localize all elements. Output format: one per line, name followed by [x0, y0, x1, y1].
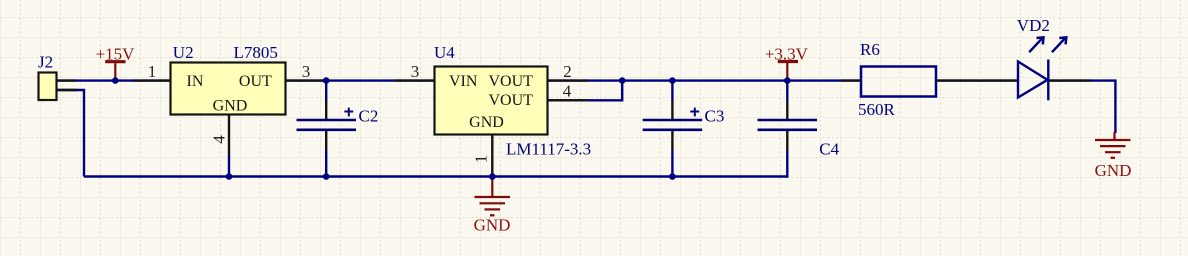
wire: J2 pin2 down to ground rail: [57, 90, 84, 177]
wire: U4 pin4 riser: [548, 81, 622, 101]
ground GND (under U4): [474, 179, 511, 235]
junction U4 pin1 / ground rail: [489, 173, 496, 180]
svg-text:1: 1: [471, 155, 490, 164]
wire: U2 pin3 to U4: [286, 79, 434, 81]
svg-text:3: 3: [411, 62, 420, 81]
junction C3 bottom / ground rail: [669, 173, 676, 180]
wire: top rail J2 to U2: [57, 79, 170, 81]
capacitor C3: [643, 106, 725, 130]
svg-text:+15V: +15V: [96, 44, 136, 63]
power +15V: [96, 44, 136, 80]
svg-text:LM1117-3.3: LM1117-3.3: [506, 140, 591, 159]
regulator U2 L7805: [134, 43, 326, 155]
regulator U4 LM1117-3.3: [394, 43, 591, 177]
svg-text:VIN: VIN: [449, 73, 478, 90]
svg-text:1: 1: [148, 62, 157, 81]
svg-text:VOUT: VOUT: [489, 73, 534, 90]
svg-text:+3.3V: +3.3V: [765, 44, 809, 63]
junction U2 pin4 / ground rail: [226, 173, 233, 180]
wire: ground rail: [84, 150, 787, 177]
junction at +15V node: [112, 77, 119, 84]
svg-text:VOUT: VOUT: [489, 92, 534, 109]
svg-text:C2: C2: [359, 106, 379, 125]
junction +3.3V node / C4: [784, 77, 791, 84]
svg-text:2: 2: [563, 62, 572, 81]
svg-text:C3: C3: [705, 106, 725, 125]
svg-text:R6: R6: [860, 40, 880, 59]
capacitor C2: [297, 106, 379, 130]
svg-text:560R: 560R: [858, 100, 896, 119]
connector J2: [38, 53, 77, 101]
svg-text:4: 4: [563, 82, 572, 101]
wire: R6 to LED: [936, 79, 1018, 81]
wire: U4 pin2 rail to R6: [548, 79, 861, 81]
svg-text:VD2: VD2: [1017, 16, 1050, 35]
svg-text:GND: GND: [213, 97, 248, 114]
svg-text:U4: U4: [434, 43, 455, 62]
junction U4 pin2/pin4: [619, 77, 626, 84]
junction C2 bottom / ground rail: [323, 173, 330, 180]
svg-text:IN: IN: [187, 73, 204, 90]
svg-text:U2: U2: [173, 43, 194, 62]
LED VD2: [977, 16, 1090, 100]
wire: LED cathode to right GND: [1048, 81, 1115, 133]
svg-text:GND: GND: [469, 114, 504, 131]
ground GND (right, below VD2): [1095, 132, 1132, 180]
junction U2 pin3 / C2: [323, 77, 330, 84]
junction C3 top: [669, 77, 676, 84]
svg-text:3: 3: [302, 62, 311, 81]
svg-text:GND: GND: [1095, 161, 1132, 180]
svg-text:4: 4: [210, 135, 229, 144]
svg-text:C4: C4: [819, 140, 839, 159]
wire: C3 stems: [671, 81, 673, 177]
svg-text:L7805: L7805: [234, 43, 278, 62]
wire: C4 top stem: [786, 81, 788, 101]
capacitor C4: [758, 120, 840, 159]
wire: C2 stems: [325, 81, 327, 177]
resistor R6: [841, 40, 977, 119]
svg-text:OUT: OUT: [239, 73, 272, 90]
svg-text:GND: GND: [474, 216, 511, 235]
power +3.3V: [765, 44, 809, 80]
svg-text:J2: J2: [38, 53, 53, 72]
wire: U2 pin4 lower segment: [228, 155, 230, 177]
